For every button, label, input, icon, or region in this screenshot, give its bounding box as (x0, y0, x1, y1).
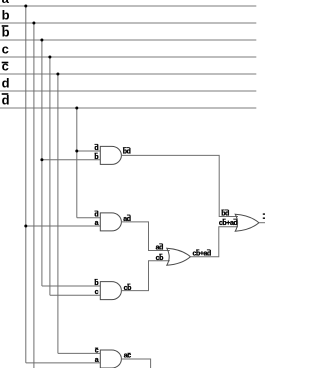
wire: AND4 output run down off bottom edge (121, 359, 150, 368)
svg-text:bd: bd (221, 211, 229, 218)
pin label b-bar (AND1 bottom) (94, 153, 98, 161)
node d-bar junction at AND1 (75, 150, 78, 153)
wire: AND2 top input from d-bar (77, 217, 101, 219)
wire: vertical drop from c (49, 57, 51, 295)
svg-text:d: d (2, 76, 10, 91)
wire: vertical drop from a (25, 6, 27, 363)
svg-text:cb+ad: cb+ad (219, 220, 238, 227)
wire: AND3 top input from b-bar (42, 285, 100, 287)
wire: vertical drop from b-bar (41, 40, 43, 286)
svg-text:bd: bd (123, 148, 131, 155)
pin label b-bar.d-bar (OR2 top) (221, 210, 229, 218)
value label (clipped at right edge) (263, 213, 265, 215)
wire: AND4 bottom input from a (26, 362, 101, 364)
svg-text:a: a (95, 220, 99, 227)
wire: OR1 output run to OR2 bottom input (190, 227, 238, 257)
svg-text:cb: cb (156, 255, 163, 262)
svg-text:c: c (95, 289, 99, 296)
wire: AND4 top input from c-bar (58, 352, 100, 354)
wire: AND1 top input from d-bar (77, 150, 101, 152)
svg-text:a: a (95, 357, 99, 364)
node a-tap (24, 5, 27, 8)
svg-text:c: c (2, 42, 9, 57)
svg-text:d: d (94, 145, 98, 152)
OR gate 1 (middle) (167, 248, 191, 265)
bus rail d (0, 90, 256, 92)
wire: vertical drop from d-bar (76, 108, 78, 218)
node d-bar-tap (75, 107, 78, 110)
value label a.d-bar (AND2 output) (123, 215, 130, 223)
svg-text:b: b (2, 25, 10, 40)
bus rail a (0, 5, 256, 7)
svg-text:b: b (94, 280, 98, 287)
svg-text:ad: ad (156, 245, 163, 252)
node c-tap (48, 56, 51, 59)
svg-text:d: d (94, 212, 98, 219)
AND gate 1 (100, 146, 121, 164)
AND gate 4 (100, 350, 121, 368)
bus rail b (0, 22, 256, 24)
AND gate 2 (100, 213, 121, 231)
svg-text:c: c (2, 59, 9, 74)
svg-text:b: b (94, 154, 98, 161)
pin label b-bar (AND3 top) (94, 279, 98, 287)
AND gate 3 (100, 282, 121, 300)
node a junction at AND2 (24, 225, 27, 228)
value label a.c-bar (AND4 output) (124, 353, 131, 360)
pin label a.d-bar (OR1 top) (156, 243, 163, 251)
wire: vertical drop from c-bar (57, 74, 59, 353)
pin label c.b-bar (OR1 bottom) (156, 254, 163, 262)
bus rail c-bar (0, 73, 256, 75)
wire: AND3 bottom input from c (50, 294, 100, 296)
svg-text:b: b (2, 8, 10, 23)
node b-tap (32, 22, 35, 25)
svg-text:a: a (2, 0, 10, 6)
bus rail d-bar (0, 107, 256, 109)
wire: AND1 bottom input from b-bar (42, 159, 100, 161)
value label b-bar.d-bar (AND1 output) (123, 147, 131, 155)
pin label c-bar (AND4 top) (95, 347, 99, 354)
wire: OR2 output to right edge (259, 222, 265, 224)
value label cb-bar+ad-bar (OR1 output) (193, 249, 212, 257)
wire: AND1 output run to OR2 top input (121, 155, 238, 216)
pin label d-bar (AND2 top) (94, 211, 98, 219)
wire: AND2 output run to OR1 top input (121, 222, 170, 251)
bus rail c (0, 56, 256, 58)
pin label cb-bar+ad-bar (OR2 bottom) (219, 219, 238, 227)
wire: AND2 bottom input from a (26, 225, 101, 227)
wire: AND3 output run to OR1 bottom input (121, 261, 170, 291)
bus rail b-bar (0, 39, 256, 41)
value label c.b-bar (AND3 output) (124, 284, 131, 292)
wire: vertical drop from b (33, 23, 35, 368)
OR gate 2 (output) (235, 214, 259, 231)
svg-text:d: d (2, 93, 10, 108)
node b-bar-tap (40, 39, 43, 42)
node c-bar-tap (56, 73, 59, 76)
node b-bar junction at AND1 (40, 158, 43, 161)
pin label d-bar (AND1 top) (94, 144, 98, 152)
